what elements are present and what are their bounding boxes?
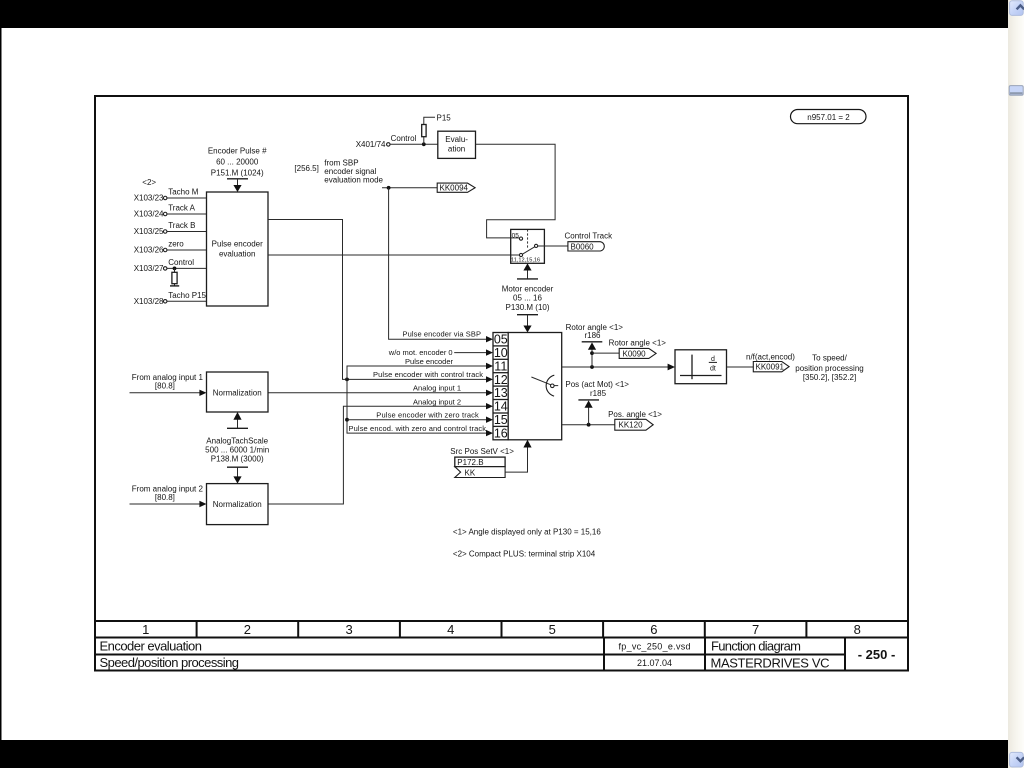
- svg-text:[350.2], [352.2]: [350.2], [352.2]: [803, 373, 856, 382]
- connector KK0091: [753, 362, 789, 372]
- arrow P138 up into U4: [237, 419, 239, 429]
- junction node (SBP feed): [387, 186, 391, 190]
- svg-text:4: 4: [447, 622, 454, 637]
- wire X103/23 to evaluation block: [167, 197, 207, 199]
- svg-text:Tacho P15: Tacho P15: [168, 291, 206, 300]
- svg-text:position processing: position processing: [795, 364, 863, 373]
- svg-text:12: 12: [494, 373, 508, 387]
- node: branch to input 11: [345, 378, 349, 382]
- svg-text:n/f(act,encod): n/f(act,encod): [746, 353, 795, 362]
- wire analog input 1: [130, 392, 201, 394]
- svg-text:fp_vc_250_e.vsd: fp_vc_250_e.vsd: [619, 642, 691, 652]
- terminal X103/27 (Control): [134, 258, 195, 273]
- rail bar under resistor: [170, 285, 179, 287]
- connector-input box KK: [455, 467, 505, 478]
- svg-text:P138.M (3000): P138.M (3000): [211, 455, 264, 464]
- block S1: control track selector: [511, 229, 545, 263]
- parameter bar P130 upper: [517, 278, 538, 280]
- dashed divider: [527, 229, 529, 248]
- label From analog input 1: [132, 373, 204, 391]
- wire switch to B0060: [538, 245, 568, 247]
- switch contact 05: [519, 237, 522, 240]
- svg-text:X103/23: X103/23: [134, 194, 164, 203]
- svg-text:X103/26: X103/26: [134, 246, 164, 255]
- svg-text:Pos. angle <1>: Pos. angle <1>: [608, 410, 662, 419]
- parameter bar P138 lower: [227, 466, 248, 468]
- svg-text:Analog input 1: Analog input 1: [413, 383, 461, 392]
- display bar r186: [582, 341, 603, 343]
- left window border line: [0, 0, 2, 768]
- svg-text:B0060: B0060: [571, 242, 595, 251]
- wire up to r186 display: [591, 349, 593, 368]
- svg-text:Pulse encod. with zero and con: Pulse encod. with zero and control track: [349, 424, 487, 433]
- scrollbar up button: [1010, 1, 1024, 16]
- svg-text:evaluation mode: evaluation mode: [324, 175, 383, 184]
- terminal X103/25 (Track B): [134, 221, 196, 236]
- wire mux output to KK120: [562, 424, 615, 426]
- junction node rotor angle: [590, 365, 594, 369]
- display bar r185: [578, 399, 599, 401]
- connector K0090: [619, 348, 656, 358]
- node: branch to input 15: [345, 418, 349, 422]
- svg-text:Control: Control: [168, 258, 194, 267]
- block U2: Evaluation: [438, 131, 476, 158]
- svg-text:r185: r185: [590, 389, 607, 398]
- svg-text:zero: zero: [168, 239, 184, 248]
- svg-text:2: 2: [244, 622, 251, 637]
- bottom black viewer bar: [0, 740, 1008, 768]
- parameter bar P151: [227, 178, 248, 180]
- parameter bar P138 upper: [227, 427, 248, 429]
- svg-text:05 ... 16: 05 ... 16: [513, 294, 542, 303]
- wire X401/74 to Evaluation block: [390, 143, 438, 145]
- svg-text:Rotor angle <1>: Rotor angle <1>: [609, 338, 667, 347]
- parameter arrow P130 into switch (up): [527, 269, 529, 279]
- svg-text:Speed/position processing: Speed/position processing: [100, 655, 240, 670]
- resistor R (P15 pull-up): [422, 125, 426, 137]
- connector KK120: [615, 419, 653, 430]
- svg-text:P172.B: P172.B: [457, 458, 483, 467]
- mux pin boxes with numbers: [493, 333, 508, 441]
- wire SBP feed to input 05: [389, 188, 487, 339]
- svg-text:[256.5]: [256.5]: [294, 164, 318, 173]
- svg-text:To speed/: To speed/: [812, 354, 847, 363]
- svg-text:r186: r186: [584, 331, 601, 340]
- wire to K0090: [592, 352, 619, 354]
- svg-text:KK0094: KK0094: [440, 184, 469, 193]
- svg-text:13: 13: [494, 386, 508, 400]
- svg-text:Encoder evaluation: Encoder evaluation: [100, 639, 203, 654]
- wire branch to input 11: [347, 366, 486, 379]
- switch wiper: [522, 247, 534, 254]
- svg-text:KK120: KK120: [619, 421, 644, 430]
- svg-text:X103/25: X103/25: [134, 227, 164, 236]
- binector B0060: [568, 242, 604, 251]
- svg-text:Pulse encoder via SBP: Pulse encoder via SBP: [403, 329, 482, 338]
- terminal X401/74: [356, 140, 390, 149]
- wire U1 output to inputs 11/12: [268, 220, 486, 380]
- svg-text:Src Pos SetV <1>: Src Pos SetV <1>: [450, 447, 514, 456]
- terminal X103/28 (Tacho P15): [134, 291, 207, 306]
- svg-text:- 250 -: - 250 -: [858, 647, 896, 662]
- terminal X103/26 (zero): [134, 239, 185, 254]
- svg-text:Encoder Pulse #: Encoder Pulse #: [208, 147, 267, 156]
- svg-text:<1> Angle displayed only at P1: <1> Angle displayed only at P130 = 15,16: [453, 527, 601, 536]
- block S2: position source selector: [508, 333, 562, 440]
- wire mux output to d/dt: [562, 366, 669, 368]
- svg-text:05: 05: [512, 232, 520, 239]
- block U3: differentiator d/dt: [675, 350, 727, 384]
- top black viewer bar: [0, 0, 1008, 28]
- svg-text:X103/27: X103/27: [134, 264, 164, 273]
- wire branch down to inputs 15/16: [347, 379, 486, 433]
- svg-text:P15: P15: [437, 114, 452, 123]
- svg-text:11,12,15,16: 11,12,15,16: [511, 257, 540, 263]
- diagram sheet frame: [95, 96, 908, 621]
- svg-text:Tacho M: Tacho M: [168, 187, 199, 196]
- connector KK0094: [437, 183, 475, 192]
- svg-text:Track B: Track B: [168, 221, 195, 230]
- svg-text:Control: Control: [391, 134, 417, 143]
- block U1: Pulse encoder evaluation: [207, 192, 269, 306]
- wire from U1 lower output to switch: [268, 254, 520, 256]
- svg-text:1: 1: [142, 622, 149, 637]
- svg-text:Normalization: Normalization: [213, 388, 262, 397]
- terminal X103/24 (Track A): [134, 203, 196, 218]
- wire normalization 2 to input 14: [268, 406, 486, 504]
- svg-text:8: 8: [854, 622, 861, 637]
- svg-text:Track A: Track A: [168, 203, 195, 212]
- wire up to r185 display: [588, 407, 590, 425]
- parameter bar P130 lower: [517, 314, 538, 316]
- wire Evaluation output to control-track switch: [476, 144, 556, 238]
- svg-text:Control Track: Control Track: [565, 232, 614, 241]
- wire X103/25 to evaluation block: [167, 231, 207, 233]
- svg-text:evaluation: evaluation: [219, 250, 255, 259]
- svg-text:5: 5: [549, 622, 556, 637]
- block U5: Normalization 2: [207, 484, 269, 525]
- wire w/o mot. encoder 0 to input 10: [454, 352, 486, 354]
- terminal X103/23 (Tacho M): [134, 187, 199, 202]
- svg-text:7: 7: [752, 622, 759, 637]
- svg-text:Pulse encoder with control tra: Pulse encoder with control track: [373, 370, 483, 379]
- wire analog input 2: [130, 503, 201, 505]
- svg-text:dt: dt: [710, 366, 716, 373]
- svg-text:[80.8]: [80.8]: [155, 493, 175, 502]
- block U4: Normalization 1: [207, 372, 269, 412]
- svg-text:Pulse encoder: Pulse encoder: [212, 240, 263, 249]
- svg-text:MASTERDRIVES VC: MASTERDRIVES VC: [711, 655, 830, 670]
- selector wiper symbol: [531, 377, 552, 385]
- svg-text:21.07.04: 21.07.04: [637, 658, 672, 668]
- svg-text:[80.8]: [80.8]: [155, 382, 175, 391]
- junction to K0090: [590, 351, 594, 355]
- junction on control wire: [173, 267, 177, 271]
- svg-text:X103/24: X103/24: [134, 210, 164, 219]
- wire X103/24 to evaluation block: [167, 213, 207, 215]
- wire X103/26 to evaluation block: [167, 249, 207, 251]
- svg-text:X401/74: X401/74: [356, 140, 386, 149]
- impulse glyph: [691, 355, 693, 380]
- svg-text:<2> Compact PLUS: terminal str: <2> Compact PLUS: terminal strip X104: [453, 550, 596, 559]
- wire stub to contact 05: [511, 237, 520, 239]
- switch contact common: [535, 244, 538, 247]
- svg-text:60 ... 20000: 60 ... 20000: [216, 158, 259, 167]
- sheet number pill n957.01 = 2: [791, 110, 867, 124]
- wire P172 to mux bottom: [505, 446, 527, 472]
- svg-text:KK0091: KK0091: [756, 363, 785, 372]
- wire X103/27 to evaluation block: [167, 267, 207, 269]
- svg-text:d: d: [711, 356, 715, 363]
- switch contact 11,12,15,16: [519, 253, 522, 256]
- resistor (control pull-down): [174, 268, 176, 285]
- title block: column number row: [95, 621, 908, 638]
- wire stub to contact 11,12,15,16: [511, 254, 520, 256]
- svg-text:Rotor angle <1>: Rotor angle <1>: [566, 323, 624, 332]
- note: to speed/position processing: [795, 354, 863, 383]
- parameter P130.M (Motor encoder) label: [502, 284, 554, 312]
- svg-text:Pulse encoder: Pulse encoder: [405, 357, 453, 366]
- svg-text:X103/28: X103/28: [134, 297, 164, 306]
- wire normalization 1 to input 13: [268, 392, 486, 394]
- svg-text:<2>: <2>: [142, 178, 156, 187]
- wire X103/28 to evaluation block: [167, 300, 207, 302]
- parameter P151.M (Encoder Pulse #) label: [208, 147, 267, 178]
- svg-text:Evalu-: Evalu-: [445, 135, 468, 144]
- svg-text:Normalization: Normalization: [213, 500, 262, 509]
- svg-text:Motor encoder: Motor encoder: [502, 284, 554, 293]
- wire branch to input 15: [347, 419, 486, 421]
- title block: lower two rows: [95, 638, 908, 671]
- svg-text:11: 11: [494, 359, 507, 373]
- svg-text:Analog input 2: Analog input 2: [413, 397, 461, 406]
- scrollbar down button: [1010, 752, 1024, 767]
- arrow from P151 into block U1: [237, 179, 239, 186]
- svg-text:ation: ation: [448, 145, 465, 154]
- svg-text:14: 14: [494, 400, 508, 414]
- svg-text:K0090: K0090: [623, 349, 647, 358]
- svg-text:n957.01 = 2: n957.01 = 2: [807, 113, 850, 122]
- junction node pos angle: [587, 423, 591, 427]
- wire SBP mode to KK0094: [382, 187, 437, 189]
- parameter box P172.B: [455, 457, 505, 467]
- svg-text:500 ... 6000 1/min: 500 ... 6000 1/min: [205, 446, 269, 455]
- svg-text:15: 15: [494, 413, 508, 427]
- wire up to P15: [424, 117, 435, 144]
- svg-text:AnalogTachScale: AnalogTachScale: [206, 437, 268, 446]
- scrollbar thumb: [1009, 86, 1023, 96]
- svg-text:Function diagram: Function diagram: [711, 639, 801, 654]
- arrow from P130 into selector mux (down): [527, 315, 529, 326]
- svg-text:Pos (act Mot) <1>: Pos (act Mot) <1>: [565, 380, 629, 389]
- svg-text:6: 6: [650, 622, 657, 637]
- wire d/dt to KK0091: [727, 366, 754, 368]
- input arrowheads 05,10,11,12,13,14,15,16: [486, 336, 493, 436]
- svg-text:05: 05: [494, 333, 508, 347]
- svg-text:P151.M (1024): P151.M (1024): [211, 169, 264, 178]
- parameter P138.M (AnalogTachScale) label: [205, 437, 269, 464]
- arrow P138 down into U5: [237, 467, 239, 477]
- svg-text:P130.M (10): P130.M (10): [505, 303, 549, 312]
- svg-text:3: 3: [345, 622, 352, 637]
- svg-text:10: 10: [494, 346, 508, 360]
- svg-text:KK: KK: [465, 468, 476, 477]
- junction on control wire: [422, 142, 426, 146]
- svg-text:16: 16: [494, 427, 508, 441]
- svg-text:Pulse encoder with zero track: Pulse encoder with zero track: [376, 410, 479, 419]
- label From analog input 2: [132, 484, 204, 502]
